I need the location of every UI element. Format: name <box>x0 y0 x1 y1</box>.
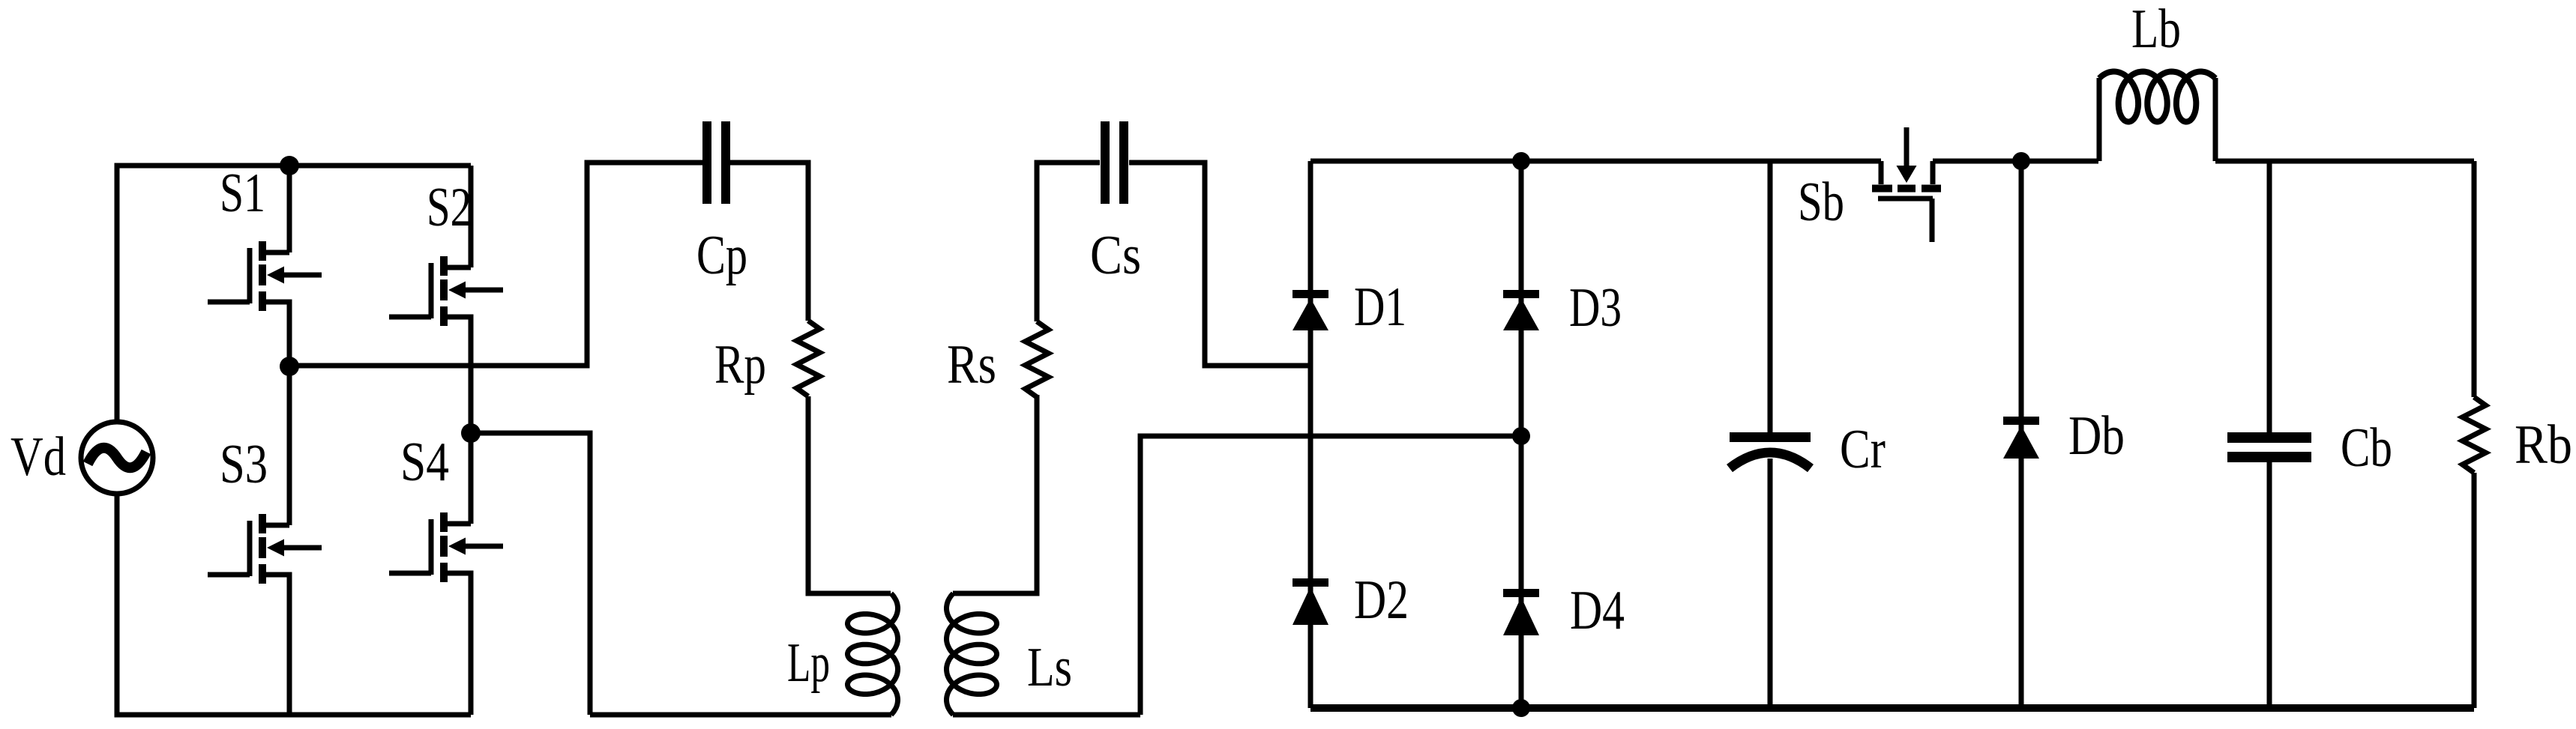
svg-text:Db: Db <box>2068 405 2125 467</box>
svg-text:Rb: Rb <box>2515 414 2572 476</box>
svg-text:S3: S3 <box>220 434 268 495</box>
svg-text:Lp: Lp <box>787 632 830 694</box>
svg-text:D1: D1 <box>1354 276 1406 338</box>
svg-text:S4: S4 <box>400 432 449 493</box>
svg-text:Cp: Cp <box>696 225 747 286</box>
svg-text:Rp: Rp <box>714 334 766 396</box>
svg-text:S2: S2 <box>427 177 472 238</box>
svg-text:Vd: Vd <box>10 426 66 488</box>
svg-text:Cb: Cb <box>2341 417 2392 479</box>
svg-text:D3: D3 <box>1569 277 1622 339</box>
svg-text:Sb: Sb <box>1798 172 1844 233</box>
svg-text:D2: D2 <box>1354 569 1409 631</box>
svg-text:Cs: Cs <box>1090 225 1141 286</box>
svg-text:Lb: Lb <box>2131 0 2181 60</box>
svg-text:D4: D4 <box>1570 580 1625 641</box>
svg-text:Rs: Rs <box>947 334 996 396</box>
svg-text:S1: S1 <box>220 163 265 224</box>
svg-text:Ls: Ls <box>1027 637 1072 698</box>
svg-text:Cr: Cr <box>1840 419 1886 480</box>
